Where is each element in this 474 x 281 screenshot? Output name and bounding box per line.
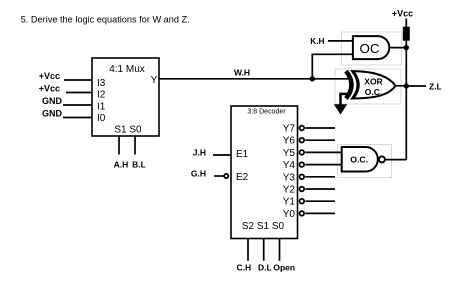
svg-text:S2 S1 S0: S2 S1 S0 <box>242 221 285 232</box>
wire G.H to E2 bubble <box>214 175 223 177</box>
wire I1 <box>63 104 92 106</box>
bubble Y7 <box>300 126 305 131</box>
node on W.H branch <box>310 76 315 81</box>
wire Y7 <box>305 127 335 129</box>
svg-text:+Vcc: +Vcc <box>39 71 60 81</box>
wire +Vcc to resistor <box>405 19 407 28</box>
wire Y2 <box>305 188 335 190</box>
svg-text:J.H: J.H <box>193 148 206 158</box>
svg-text:S1 S0: S1 S0 <box>114 125 142 136</box>
svg-text:Y3: Y3 <box>283 172 296 183</box>
xor gate U3 (XOR O.C.) <box>346 71 396 98</box>
wire W.H (mux Y output to XOR input) <box>159 78 351 80</box>
wire OC output <box>389 47 406 49</box>
wire S2 stub <box>247 239 249 261</box>
wire Y3 <box>305 176 335 178</box>
bubble Y3 <box>300 175 305 180</box>
bubble NAND output <box>379 156 385 162</box>
svg-text:GND: GND <box>42 109 63 119</box>
wire S1 stub <box>118 136 120 155</box>
arrow head (down) <box>334 104 347 114</box>
svg-text:Y0: Y0 <box>283 209 296 220</box>
svg-text:C.H: C.H <box>236 263 251 273</box>
svg-text:I0: I0 <box>97 113 106 124</box>
svg-text:A.H: A.H <box>114 160 129 170</box>
svg-text:4:1 Mux: 4:1 Mux <box>109 64 145 75</box>
selection box around XOR gate <box>335 69 401 104</box>
svg-text:Y4: Y4 <box>283 160 296 171</box>
wire branch up from W.H to OC input <box>312 54 353 79</box>
wire S1 stub (decoder) <box>263 239 265 261</box>
svg-text:OC: OC <box>360 41 380 56</box>
bubble Y6 <box>300 138 305 143</box>
wire XOR output <box>395 85 406 87</box>
wire vertical bus (resistor to NAND output level) <box>405 41 407 160</box>
svg-text:Y6: Y6 <box>283 136 296 147</box>
wire Y1 <box>305 200 335 202</box>
svg-text:Y7: Y7 <box>283 124 296 135</box>
svg-text:O.C.: O.C. <box>365 87 382 97</box>
svg-text:Y1: Y1 <box>283 197 296 208</box>
selection box around OC gate <box>342 32 402 65</box>
wire S0 stub <box>134 136 136 155</box>
bubble Y1 <box>300 199 305 204</box>
svg-text:XOR: XOR <box>364 76 382 86</box>
svg-text:D.L: D.L <box>258 263 272 273</box>
svg-text:E2: E2 <box>236 172 249 183</box>
svg-text:+Vcc: +Vcc <box>39 84 60 94</box>
svg-text:Y: Y <box>151 75 158 86</box>
wire K.H to OC input <box>328 40 353 42</box>
bubble Y4 <box>300 162 305 167</box>
decoder U4 box <box>231 106 298 239</box>
wire S0 stub (decoder) <box>279 239 281 261</box>
svg-text:G.H: G.H <box>191 169 206 179</box>
svg-text:I1: I1 <box>97 101 106 112</box>
wire Y0 <box>305 212 335 214</box>
svg-text:W.H: W.H <box>234 68 250 78</box>
nand gate U5 (O.C.) <box>342 147 378 172</box>
wire Y5 to NAND input <box>305 151 341 153</box>
svg-text:GND: GND <box>42 96 63 106</box>
wire XOR lower input elbow with arrow <box>341 94 350 105</box>
svg-text:I3: I3 <box>97 78 106 89</box>
svg-text:+Vcc: +Vcc <box>392 9 413 19</box>
svg-text:Z.L: Z.L <box>429 81 442 91</box>
svg-text:Open: Open <box>273 263 295 273</box>
wire Z.L output <box>406 85 426 87</box>
bubble Y0 <box>300 211 305 216</box>
wire I3 <box>64 79 92 81</box>
node OC output junction <box>404 45 409 50</box>
wire Y6 <box>305 139 335 141</box>
op-amp U2 OC buffer gate <box>353 36 389 59</box>
wire NAND output to vertical bus <box>386 159 407 161</box>
bubble E2 <box>224 174 228 178</box>
svg-text:Y5: Y5 <box>283 148 296 159</box>
bubble Y2 <box>300 187 305 192</box>
svg-text:3:8 Decoder: 3:8 Decoder <box>247 109 286 116</box>
selection box around NAND O.C. gate <box>338 145 392 178</box>
svg-text:I2: I2 <box>97 90 106 101</box>
wire I0 <box>63 117 92 119</box>
node Z junction <box>404 83 409 88</box>
svg-text:E1: E1 <box>236 149 249 160</box>
wire Y4 to NAND input <box>305 164 341 166</box>
mux U1 box <box>92 58 159 136</box>
svg-text:Y2: Y2 <box>283 185 296 196</box>
wire I2 <box>66 92 92 94</box>
bubble Y5 <box>300 150 305 155</box>
wire J.H to E1 <box>213 154 231 156</box>
resistor R1 pull-up <box>403 27 410 41</box>
svg-text:K.H: K.H <box>310 36 324 46</box>
svg-text:O.C.: O.C. <box>350 155 368 165</box>
svg-text:B.L: B.L <box>132 160 146 170</box>
svg-text:5. Derive the logic equations: 5. Derive the logic equations for W and … <box>21 14 190 24</box>
